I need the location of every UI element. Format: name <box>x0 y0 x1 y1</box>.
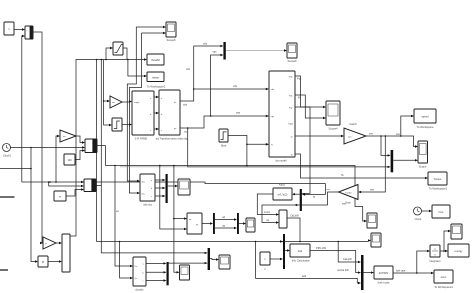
svg-text:Kqd1: Kqd1 <box>279 183 286 187</box>
mux bar R <box>391 150 394 172</box>
wire Kqd1 out to calc <box>257 194 279 216</box>
clock Clock1 <box>3 144 12 158</box>
svg-text:Fqd: Fqd <box>298 249 303 253</box>
wire ud <box>215 215 237 221</box>
fuel mode block <box>374 266 393 285</box>
svg-text:2-R FAME: 2-R FAME <box>135 137 148 141</box>
wire bus to dq-abc in1 <box>115 166 133 268</box>
svg-text:Gain: Gain <box>345 201 351 205</box>
svg-text:vqs: vqs <box>213 51 218 54</box>
wire mux L3 out <box>285 249 290 251</box>
wire mux to scope6 <box>226 49 287 51</box>
wire riser into saturation <box>106 47 113 60</box>
wire n to mux L3 <box>270 258 283 260</box>
svg-text:wm: wm <box>369 133 373 136</box>
gain triangle 2pi60 flipped <box>339 185 375 205</box>
wire branch to mux2 in2 <box>48 181 84 187</box>
svg-text:thetar: thetar <box>152 75 159 79</box>
wire Fds to scope4 <box>295 95 326 119</box>
mux2 block <box>84 179 96 192</box>
trunk theta down mid <box>101 59 103 186</box>
constant block 1 <box>4 22 14 35</box>
trunk theta down left <box>96 60 98 242</box>
edge mark 2 <box>0 196 15 198</box>
wire muxB to fuel block <box>364 271 375 273</box>
wire const to sum <box>14 28 25 30</box>
wire vds to machine <box>194 84 269 90</box>
wire vq cmd to scope in2 <box>129 32 166 194</box>
svg-text:wr: wr <box>291 136 294 139</box>
wires abc-dq to mux M1 <box>155 179 166 197</box>
svg-text:theta60: theta60 <box>151 58 160 62</box>
svg-text:imod: imod <box>264 210 270 214</box>
mux bar M2 <box>167 262 169 285</box>
integrator block <box>429 245 440 263</box>
wire mux2 out down to mux bar <box>96 186 208 255</box>
wire uq <box>215 224 237 229</box>
mux bar B <box>361 255 364 290</box>
svg-text:wt: wt <box>116 209 119 213</box>
long feedback bus y241 <box>97 239 372 242</box>
svg-text:kCPWS: kCPWS <box>379 271 388 275</box>
scope mid bottom <box>219 255 230 269</box>
flux calc block <box>279 210 287 228</box>
to-workspace energy <box>448 244 469 257</box>
svg-text:Clock1: Clock1 <box>3 154 12 158</box>
clock Clock <box>414 207 423 221</box>
svg-text:vds: vds <box>233 84 238 88</box>
svg-text:Step: Step <box>221 144 227 148</box>
asd line <box>255 241 361 284</box>
wire integrator to energy and scope <box>440 230 451 252</box>
wire fuel rate <box>393 250 434 274</box>
scope bottom left <box>180 265 190 280</box>
svg-text:To Workspace4: To Workspace4 <box>434 285 453 289</box>
mux bar M1 <box>166 174 168 203</box>
demux bar K <box>300 189 302 211</box>
wire clock to mux1 <box>11 146 86 148</box>
svg-text:asd: asd <box>302 274 307 278</box>
wire theta loop horizontal <box>70 58 147 236</box>
wire clock branch to PI <box>30 147 38 263</box>
mux1 block <box>85 139 97 153</box>
svg-text:Clock: Clock <box>415 217 422 221</box>
Kqd1 gain block <box>273 183 292 201</box>
svg-text:dq Transformation (abc-dq): dq Transformation (abc-dq) <box>156 137 189 141</box>
wire Fqdr down to current demux <box>295 107 316 199</box>
mux bar 2 <box>237 213 239 234</box>
svg-text:Torque: Torque <box>434 177 442 181</box>
gain triangle we <box>60 130 76 142</box>
svg-text:wm: wm <box>370 189 374 192</box>
edge mark 3 <box>0 269 8 271</box>
wire vd cmd to scope in1 <box>127 26 166 182</box>
svg-text:PI: PI <box>42 260 45 264</box>
wire sum output down to speed gain <box>33 32 43 244</box>
scope Scope6 <box>287 43 297 63</box>
subsystem dq-abc bottom <box>133 257 146 292</box>
mux bar L3 <box>283 234 285 269</box>
gain triangle speed loop <box>43 237 56 249</box>
constant n block <box>260 252 270 271</box>
to-workspace econ <box>434 270 453 289</box>
svg-text:vqs: vqs <box>236 112 241 115</box>
svg-text:Fqs: Fqs <box>297 77 302 81</box>
wire bus to wt calc in2 <box>160 166 187 231</box>
wire wm branch to muxR <box>381 136 391 157</box>
scope A <box>367 213 377 228</box>
svg-text:Scope4: Scope4 <box>328 127 338 131</box>
svg-text:speed: speed <box>421 115 429 119</box>
wire wm down to gainB <box>358 136 385 193</box>
wire Te to muxR and torque <box>295 154 428 179</box>
svg-text:Scope6: Scope6 <box>287 59 297 63</box>
svg-text:Fqdr: Fqdr <box>289 123 294 126</box>
gain triangle theta <box>110 96 122 108</box>
wire calc out to bus <box>287 214 300 242</box>
wire feedback into gain we <box>56 135 60 182</box>
scope right <box>418 141 428 169</box>
mux for scope6 <box>223 42 225 60</box>
wire CaLpW to mux B <box>338 242 361 264</box>
wire bus to wt calc in1 and scope <box>116 166 187 274</box>
svg-text:dq model: dq model <box>275 159 286 163</box>
wire gain6 out to speed <box>366 115 418 148</box>
svg-text:Fqr: Fqr <box>289 107 293 110</box>
wire wt calc to demux <box>202 222 213 224</box>
wires RF to dq transformation <box>154 96 159 130</box>
svg-text:integrator: integrator <box>429 259 440 263</box>
svg-text:Scope5: Scope5 <box>166 38 176 42</box>
wire barK to Kqd1 <box>292 193 300 195</box>
svg-text:CaLbW: CaLbW <box>290 214 299 218</box>
wire vqs to machine <box>180 112 269 134</box>
svg-text:vds: vds <box>203 42 208 46</box>
trunk theta to gain and relay <box>103 60 112 127</box>
scope B <box>371 233 381 247</box>
svg-text:fuel rate: fuel rate <box>396 269 406 273</box>
wire vds up to mux scope <box>180 42 223 107</box>
svg-text:120: 120 <box>67 158 72 162</box>
scope Scope5 <box>166 22 176 42</box>
svg-text:To Workspace1: To Workspace1 <box>429 187 448 191</box>
sum block <box>25 26 33 39</box>
to-workspace time <box>432 205 450 218</box>
saturation block <box>113 42 123 55</box>
svg-text:iHo Calculation: iHo Calculation <box>292 259 311 263</box>
wire vqs riser to mux scope <box>211 51 224 117</box>
scope C <box>451 224 462 239</box>
to-workspace speed <box>414 109 436 129</box>
wire mux1 output to bus <box>97 146 105 166</box>
svg-text:PIPL kW: PIPL kW <box>316 246 327 250</box>
wm feedback wire from gain <box>22 181 339 205</box>
wire w to mux2 <box>66 188 84 196</box>
svg-text:time: time <box>439 210 444 214</box>
wire iq to calc in2 <box>262 205 300 224</box>
svg-text:fuel mode: fuel mode <box>378 281 390 285</box>
iq calculation block <box>290 244 311 263</box>
svg-text:w*L*s(2): w*L*s(2) <box>278 193 288 197</box>
svg-text:Scope: Scope <box>419 165 427 169</box>
svg-text:angle: angle <box>134 102 140 104</box>
subsystem dq transformation <box>156 90 189 141</box>
to-workspace block thetaE <box>147 54 164 65</box>
wire feedback into sum in2 <box>22 35 25 182</box>
wire iHo out to mux B <box>310 246 361 274</box>
wire step to TL <box>228 136 269 167</box>
wire vqs drop to bus <box>186 67 391 168</box>
svg-text:Gain6: Gain6 <box>349 122 357 126</box>
svg-text:2*p/60: 2*p/60 <box>345 192 352 194</box>
wire gain to mux3 <box>56 242 62 244</box>
bus wire shadow line <box>120 166 188 168</box>
to-workspace torque <box>428 172 448 191</box>
wire mux M1 to scope3 <box>168 185 178 187</box>
scope Scope1 <box>246 218 255 232</box>
wire 120 to mux1 <box>75 149 85 159</box>
constant w <box>54 191 66 201</box>
svg-text:mACa kW: mACa kW <box>337 268 349 272</box>
svg-text:To Workspace2: To Workspace2 <box>147 85 166 89</box>
svg-text:abc-dq: abc-dq <box>143 203 152 207</box>
demux bar 1 <box>213 213 215 234</box>
gain triangle Gain6 <box>344 122 366 144</box>
step block <box>219 129 228 148</box>
wire bus to dq-abc in2 <box>120 242 133 280</box>
induction machine dq model block <box>269 71 295 163</box>
mux bar 2M <box>208 248 210 270</box>
wire gain to RF block <box>122 100 132 102</box>
relay block <box>112 118 122 131</box>
svg-text:vdc: vdc <box>186 67 191 71</box>
wires dq-abc to mux M2 <box>146 262 167 282</box>
wire relay to RF block <box>122 123 132 125</box>
constant 120 <box>64 154 75 165</box>
svg-text:wm: wm <box>327 189 331 191</box>
wt calculation block <box>187 213 202 234</box>
wire Fqs to scope4 <box>295 76 326 108</box>
svg-text:CaLpW: CaLpW <box>343 257 352 261</box>
wire mux M2 to mux 2M <box>169 262 208 264</box>
subsystem 2-R FAME <box>132 91 154 141</box>
edge mark 1 <box>0 168 32 170</box>
scope Scope3 <box>178 179 190 195</box>
wire mux 2M to scope <box>210 258 219 260</box>
scope Scope4 <box>326 101 340 131</box>
wire to scope1 <box>239 222 246 224</box>
svg-text:vds: vds <box>183 103 188 107</box>
PI block <box>38 256 48 267</box>
svg-text:w: w <box>59 196 61 199</box>
svg-text:wm: wm <box>396 133 400 136</box>
wire gain we to mux1 <box>76 136 85 144</box>
long bus wire to wm scope <box>105 165 367 223</box>
wire clock to time <box>422 210 433 212</box>
wire wr to gain6 <box>295 135 344 137</box>
wire muxR to scope <box>393 159 418 161</box>
svg-text:energy: energy <box>455 249 464 253</box>
subsystem abc-dq middle <box>140 174 155 207</box>
to-workspace block thetar <box>147 72 166 89</box>
wire to thetar <box>128 60 147 78</box>
svg-text:wm: wm <box>348 137 352 139</box>
svg-text:To Workspace: To Workspace <box>417 125 434 129</box>
wire PI to mux3 <box>48 260 62 262</box>
svg-text:dq-abc: dq-abc <box>135 288 144 292</box>
wire saturation output drop <box>123 48 127 60</box>
svg-text:econ: econ <box>441 276 447 279</box>
mux3 tall block <box>62 234 70 272</box>
wire wm branch to current demux <box>294 189 330 206</box>
